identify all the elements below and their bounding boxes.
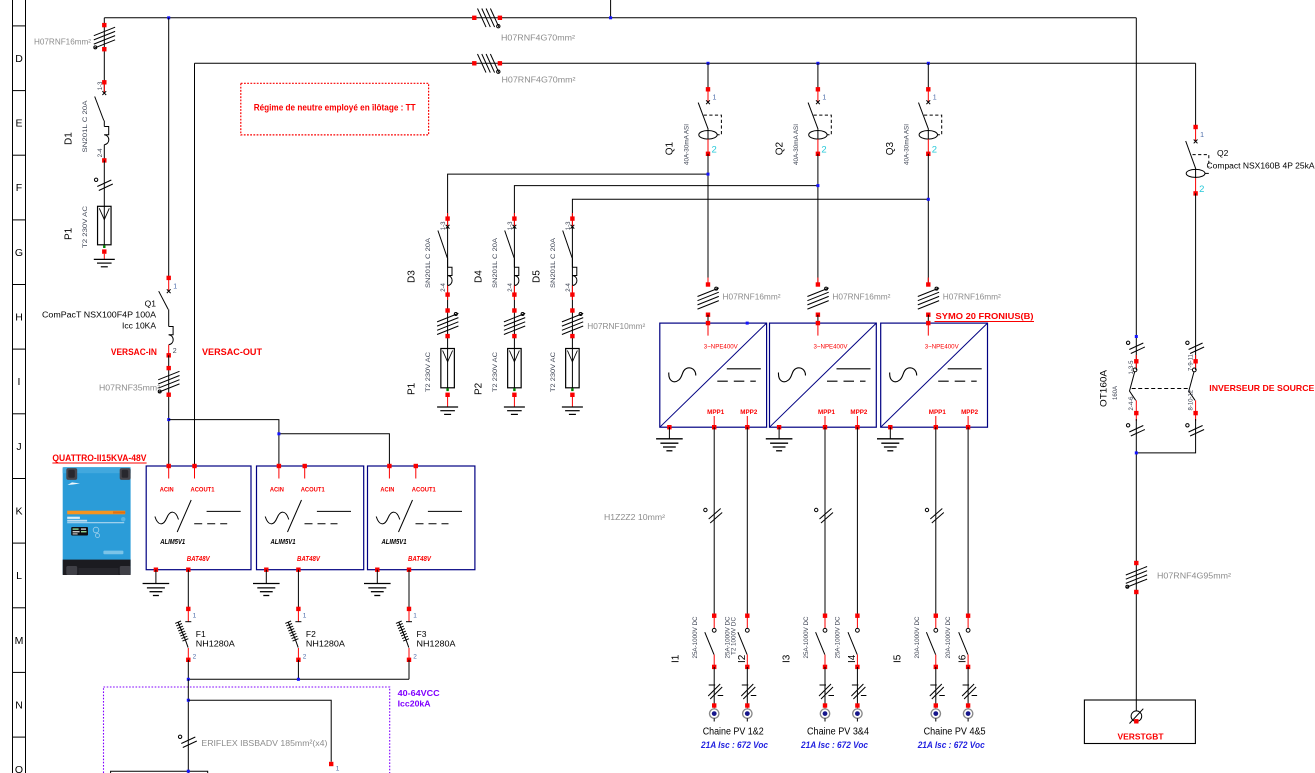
svg-text:F1: F1: [196, 629, 206, 639]
cable H07RNF16mm2: [94, 27, 115, 36]
fuse blade hatching: [288, 622, 295, 640]
cable H1Z2Z2 mark: [820, 509, 832, 520]
svg-text:SN201L C 20A: SN201L C 20A: [425, 237, 432, 288]
conductor count mark: [741, 684, 753, 696]
RCD breaker Q3 40A-30mA ASI: [885, 87, 942, 165]
DC disconnector I2: [725, 614, 749, 670]
svg-text:N: N: [15, 699, 23, 711]
svg-text:H1Z2Z2 10mm²: H1Z2Z2 10mm²: [604, 513, 665, 522]
svg-text:2-4: 2-4: [508, 282, 514, 291]
ground of W3: [889, 427, 891, 439]
terminal pin 1 of Q2: [1193, 125, 1197, 129]
wire: [824, 667, 826, 706]
terminal pin 2 of Q1: [167, 353, 171, 357]
terminal green: [103, 245, 105, 248]
node: bus1 / Q1 feeder junction: [167, 16, 170, 19]
svg-text:G: G: [15, 247, 23, 259]
terminal MPP2: [855, 425, 859, 429]
svg-text:Q2: Q2: [774, 142, 785, 156]
terminal ground of U2: [264, 568, 268, 572]
terminal green: [513, 388, 515, 391]
cable mark: [1129, 343, 1143, 350]
svg-text:ALIM5V1: ALIM5V1: [270, 539, 296, 546]
cable H07RNF4G70mm2 on bus1: [478, 9, 487, 28]
wire: PV string I2: [746, 427, 748, 616]
fuse switch F3 NH1280A: [396, 607, 456, 662]
node marker: [1135, 335, 1138, 338]
svg-text:D5: D5: [531, 270, 542, 283]
svg-text:21A Isc : 672 Voc: 21A Isc : 672 Voc: [800, 740, 868, 751]
circuit breaker Q2 Compact NSX160B: [1186, 125, 1315, 196]
surge arrester P1: [98, 206, 112, 245]
svg-text:Q1: Q1: [665, 142, 676, 156]
terminal: [706, 282, 710, 286]
svg-text:INVERSEUR DE SOURCE: INVERSEUR DE SOURCE: [1209, 383, 1314, 393]
terminal: [934, 665, 938, 669]
svg-text:40-64VCC: 40-64VCC: [398, 688, 440, 698]
terminal of I4: [855, 614, 859, 618]
wire: [707, 315, 709, 323]
terminal pin 2 of Q3: [926, 152, 930, 156]
terminal ACIN of U3: [387, 464, 391, 468]
wire: [967, 667, 969, 706]
svg-text:H07RNF4G70mm²: H07RNF4G70mm²: [501, 34, 575, 43]
blade: [959, 632, 968, 654]
terminal: [512, 334, 516, 338]
wire: [927, 315, 929, 323]
breaker D5 blade: [563, 231, 572, 258]
svg-text:MPP2: MPP2: [961, 410, 979, 416]
svg-text:K: K: [15, 506, 22, 518]
terminal MPP2: [966, 425, 970, 429]
contact circle: [1133, 368, 1137, 372]
svg-text:Régime de neutre employé en îl: Régime de neutre employé en îlôtage : TT: [254, 102, 416, 112]
RCD breaker Q2 40A-30mA ASI: [774, 87, 831, 165]
svg-text:Icc 10KA: Icc 10KA: [122, 322, 157, 331]
sheet border left column: [12, 0, 14, 773]
svg-text:2: 2: [413, 654, 417, 661]
ground of W2: [778, 427, 780, 439]
OT160A pole 7-9-11/8-10-12: [1186, 341, 1204, 436]
cable mark: [504, 313, 525, 322]
wire: [817, 315, 819, 323]
svg-text:L: L: [16, 570, 22, 582]
contact circle: [934, 628, 938, 632]
RCD blade: [698, 103, 708, 130]
ground of P1: [94, 258, 115, 260]
svg-text:T2 230V AC: T2 230V AC: [425, 352, 432, 392]
terminal MPP1: [823, 425, 827, 429]
terminal: [570, 308, 574, 312]
terminal ground of U3: [375, 568, 379, 572]
svg-text:P1: P1: [63, 227, 74, 240]
disconnect mark: [97, 180, 111, 187]
terminal pin 2 of Q1: [706, 152, 710, 156]
svg-text:BAT48V: BAT48V: [187, 556, 211, 563]
svg-text:H07RNF16mm²: H07RNF16mm²: [832, 293, 890, 302]
svg-text:2: 2: [1199, 184, 1204, 195]
svg-text:2: 2: [303, 654, 307, 661]
svg-text:Chaine PV 3&4: Chaine PV 3&4: [807, 727, 869, 738]
terminal ground: [777, 425, 781, 429]
wire: [103, 160, 105, 206]
wire: [935, 667, 937, 706]
conductor count mark: [930, 684, 942, 696]
terminal pin 2 of Q2: [1193, 191, 1197, 195]
svg-text:25A-1000V DC: 25A-1000V DC: [804, 616, 810, 659]
terminal: [745, 703, 749, 707]
node: ACIN2/ACIN3 junction: [277, 432, 280, 435]
svg-text:SN201L C 20A: SN201L C 20A: [82, 100, 89, 153]
svg-text:MPP1: MPP1: [707, 410, 725, 416]
svg-text:Q2: Q2: [1217, 148, 1229, 158]
wire BAT to fuse F2: [297, 570, 299, 609]
terminal: [712, 703, 716, 707]
DC disconnector I6: [946, 614, 970, 670]
svg-text:D4: D4: [473, 270, 484, 283]
terminal: [167, 366, 171, 370]
blade: [926, 632, 935, 654]
node: DC tap: [187, 699, 190, 702]
terminal MPP2: [745, 425, 749, 429]
wire: VERSAC-OUT AC bus: [195, 62, 1196, 64]
terminal: [512, 308, 516, 312]
terminal ACIN of U1: [167, 464, 171, 468]
svg-text:Icc20kA: Icc20kA: [398, 699, 431, 709]
terminal: [823, 665, 827, 669]
fuse blade hatching: [178, 622, 185, 640]
terminal: [966, 703, 970, 707]
svg-text:2: 2: [173, 348, 177, 355]
DC symbol: [837, 368, 871, 370]
RCD blade: [808, 103, 818, 130]
svg-text:25A-1000V DC: 25A-1000V DC: [835, 616, 841, 659]
node: F1 to DC bus: [187, 678, 190, 681]
svg-text:8-10-12: 8-10-12: [1188, 389, 1194, 410]
terminal: [472, 16, 476, 20]
DC symbol: [948, 368, 982, 370]
svg-text:F: F: [16, 182, 22, 194]
contact circle: [823, 628, 827, 632]
ground of arrester: [562, 406, 583, 408]
svg-text:H: H: [15, 312, 23, 324]
terminal pin 2-4 of D4: [512, 292, 516, 296]
svg-text:Chaine PV 4&5: Chaine PV 4&5: [924, 727, 986, 738]
wire: [713, 667, 715, 706]
wire: ACIN distribution jog: [169, 420, 390, 466]
breaker D1 blade: [95, 97, 104, 121]
cable H07RNF16mm2: [807, 288, 828, 297]
terminal: [570, 334, 574, 338]
breaker D3 SN201L C 20A: [407, 213, 453, 300]
svg-text:21A Isc : 672 Voc: 21A Isc : 672 Voc: [917, 740, 985, 751]
svg-text:25A-1000V DC: 25A-1000V DC: [693, 616, 699, 659]
terminal: [745, 665, 749, 669]
wire: D4 branch riser and link to RCD: [514, 186, 818, 349]
ground of arrester: [437, 406, 458, 408]
wire: D1/P1 branch: [103, 18, 105, 93]
AC/DC converter symbol: [155, 512, 179, 524]
svg-text:NH1280A: NH1280A: [417, 639, 456, 649]
terminal pin 1 of Q3: [926, 87, 930, 91]
breaker D4 blade: [505, 231, 514, 258]
terminal pin 1: [329, 762, 333, 766]
ground of W1: [668, 427, 670, 439]
terminal: [855, 703, 859, 707]
svg-text:1: 1: [173, 284, 177, 291]
RCD test dashed box: [814, 115, 832, 135]
svg-text:P1: P1: [407, 382, 418, 395]
terminal pin 1 of F2: [296, 607, 300, 611]
node: feeder to ACIN bus: [167, 418, 170, 421]
svg-text:2: 2: [821, 145, 826, 156]
cable H07RNF35mm2: [158, 371, 179, 380]
distribution board VERSTGBT: [1084, 700, 1195, 744]
wire: D5 branch riser and link to RCD: [572, 199, 928, 348]
terminal: [512, 393, 516, 397]
svg-text:H07RNF4G95mm²: H07RNF4G95mm²: [1157, 572, 1231, 581]
cable H1Z2Z2 mark: [930, 509, 942, 520]
terminal of I6: [966, 614, 970, 618]
inverter/charger U2 Quattro ALIM5V1: [257, 464, 364, 572]
terminal: [966, 665, 970, 669]
wire: PV string I5: [935, 427, 937, 616]
svg-text:SYMO 20 FRONIUS(B): SYMO 20 FRONIUS(B): [936, 311, 1034, 321]
node: poles join: [1135, 451, 1138, 454]
svg-text:160A: 160A: [1113, 386, 1119, 400]
svg-text:2-4: 2-4: [566, 282, 572, 291]
cable mark: [1189, 426, 1203, 433]
svg-text:SN201L C 20A: SN201L C 20A: [550, 237, 557, 288]
wire: bus2 drop to Q2: [1195, 63, 1197, 127]
svg-text:VERSAC-OUT: VERSAC-OUT: [202, 347, 262, 357]
node: bus2 tap Q3: [927, 62, 930, 65]
AC/DC converter symbol: [376, 512, 400, 524]
ground of arrester: [504, 406, 525, 408]
terminal ACOUT1 of U3: [414, 464, 418, 468]
svg-text:T2 230V AC: T2 230V AC: [82, 206, 89, 248]
terminal AC input: [816, 321, 820, 325]
svg-text:VERSTGBT: VERSTGBT: [1118, 732, 1165, 742]
terminal of I2: [745, 614, 749, 618]
RCD toroid: [809, 131, 827, 140]
svg-text:2: 2: [932, 145, 937, 156]
svg-text:1-3: 1-3: [98, 81, 104, 90]
wire: main AC bus (top): [104, 17, 1136, 19]
svg-text:H07RNF16mm²: H07RNF16mm²: [943, 293, 1001, 302]
terminal: [1134, 590, 1138, 594]
svg-text:J: J: [16, 441, 21, 453]
node marker: [746, 322, 749, 325]
cable mark: [437, 313, 458, 322]
cable H07RNF4G95mm2: [1126, 567, 1147, 576]
svg-text:I2: I2: [737, 654, 748, 663]
svg-text:H07RNF10mm²: H07RNF10mm²: [587, 322, 645, 331]
terminal of I3: [823, 614, 827, 618]
svg-text:SN201L C 20A: SN201L C 20A: [492, 237, 499, 288]
terminal pin 1 of Q2: [816, 87, 820, 91]
wire: DC feeder down: [187, 679, 189, 773]
wire: [707, 154, 709, 285]
surge arrester P1: [441, 349, 455, 408]
DC symbol: [727, 368, 761, 370]
terminal: [934, 703, 938, 707]
svg-text:QUATTRO-II15KVA-48V: QUATTRO-II15KVA-48V: [52, 453, 147, 464]
wire: DC link to battery fuse: [188, 700, 331, 762]
wire Q1 drop: [707, 63, 709, 89]
PV string connector: [853, 709, 862, 718]
svg-text:I6: I6: [958, 654, 969, 663]
PV inverter W2 Symo 3~NPE400V: [770, 321, 877, 430]
terminal BAT48V of U1: [186, 568, 190, 572]
svg-text:40A-30mA ASI: 40A-30mA ASI: [905, 124, 911, 165]
cable H07RNF4G70mm2 on bus2: [478, 54, 487, 73]
svg-text:ACIN: ACIN: [160, 488, 174, 494]
svg-text:NH1280A: NH1280A: [306, 639, 345, 649]
svg-text:T2 230V AC: T2 230V AC: [492, 352, 499, 392]
inverter diagonal: [881, 323, 988, 427]
svg-text:E: E: [15, 118, 22, 130]
svg-text:1: 1: [713, 95, 717, 102]
terminal: [855, 665, 859, 669]
node: F2 to DC bus: [297, 678, 300, 681]
wire: stub to top edge: [610, 0, 612, 18]
contact circle: [1192, 368, 1196, 372]
cable H07RNF16mm2: [918, 288, 939, 297]
terminal: [926, 282, 930, 286]
terminal green: [571, 388, 573, 391]
svg-text:MPP1: MPP1: [818, 410, 836, 416]
svg-text:2: 2: [712, 145, 717, 156]
breaker Q1 blade: [159, 291, 169, 309]
node: bus2 tap Q2: [816, 62, 819, 65]
terminal: [445, 393, 449, 397]
svg-text:1: 1: [822, 95, 826, 102]
terminal of I5: [934, 614, 938, 618]
ground of U3: [376, 570, 378, 584]
breaker D4 SN201L C 20A: [473, 213, 519, 300]
terminal 8-10-12: [1193, 411, 1197, 415]
svg-text:BAT48V: BAT48V: [408, 556, 432, 563]
wire: [187, 660, 189, 680]
terminal ground: [888, 425, 892, 429]
PV string connector: [743, 709, 752, 718]
note box: regime de neutre: [241, 83, 429, 135]
node: arrester branch junction: [927, 198, 930, 201]
battery block (clipped): [111, 771, 208, 773]
fuse switch F1 NH1280A: [175, 607, 235, 662]
terminal pin 1 of Q1: [167, 276, 171, 280]
PV string connector: [963, 709, 972, 718]
terminal pin 1-3 of D4: [512, 216, 516, 220]
svg-text:D: D: [15, 53, 23, 65]
RCD test dashed box: [704, 115, 722, 135]
coil ellipse: [1186, 169, 1205, 177]
DC disconnector I3: [782, 614, 828, 670]
terminal pin 2-4 of D1: [102, 158, 106, 162]
svg-text:ACIN: ACIN: [270, 488, 284, 494]
svg-text:I3: I3: [782, 654, 793, 663]
breaker D5 SN201L C 20A: [531, 213, 577, 300]
blade: [1186, 141, 1196, 169]
cable H1Z2Z2 mark: [709, 509, 721, 520]
trip dashed link: [1193, 155, 1209, 167]
terminal MPP1: [934, 425, 938, 429]
terminal: [926, 313, 930, 317]
DC disconnector I5: [892, 614, 938, 670]
ground of U2: [265, 570, 267, 584]
svg-text:21A Isc : 672 Voc: 21A Isc : 672 Voc: [700, 740, 768, 751]
blade: [705, 632, 714, 654]
wire BAT to fuse F1: [187, 570, 189, 609]
cable ERIFLEX IBSBADV: [181, 737, 195, 744]
svg-text:M: M: [15, 635, 24, 647]
wire: bus1 drop to OT160A: [1135, 18, 1137, 370]
terminal: [823, 703, 827, 707]
terminal 2-4-6: [1134, 411, 1138, 415]
terminal pin 2 of F3: [407, 658, 411, 662]
node: arrester branch junction: [707, 173, 710, 176]
DC disconnector I4: [835, 614, 859, 670]
svg-text:1: 1: [336, 766, 340, 773]
wire: VERSAC-IN feeder: [168, 18, 170, 278]
svg-text:F3: F3: [417, 629, 427, 639]
svg-text:MPP2: MPP2: [850, 410, 868, 416]
wire BAT to fuse F3: [408, 570, 410, 609]
svg-text:1: 1: [933, 95, 937, 102]
cable mark: [1129, 426, 1143, 433]
terminal 7-9-11: [1193, 359, 1197, 363]
conductor count mark: [708, 684, 720, 696]
svg-text:40A-30mA ASI: 40A-30mA ASI: [794, 124, 800, 165]
blade: [1189, 372, 1195, 401]
terminal: [816, 282, 820, 286]
terminal ground: [667, 425, 671, 429]
wire: PV string I6: [967, 427, 969, 616]
terminal: [498, 61, 502, 65]
terminal ACIN of U2: [277, 464, 281, 468]
fuse blade hatching: [399, 622, 406, 640]
terminal pin 1-3 of D3: [445, 216, 449, 220]
node: wire into battery block: [187, 770, 190, 773]
svg-text:2-4: 2-4: [441, 282, 447, 291]
conductor count mark: [962, 684, 974, 696]
svg-text:ACOUT1: ACOUT1: [191, 488, 216, 494]
svg-text:1: 1: [303, 613, 307, 620]
svg-text:T2 1000V DC: T2 1000V DC: [731, 616, 737, 655]
svg-text:I4: I4: [847, 654, 858, 663]
svg-text:1: 1: [413, 613, 417, 620]
terminal pin 1 of F1: [186, 607, 190, 611]
terminal: [445, 334, 449, 338]
AC sine symbol: [890, 368, 917, 382]
svg-text:MPP1: MPP1: [929, 410, 947, 416]
svg-text:20A-1000V DC: 20A-1000V DC: [946, 616, 952, 659]
RCD breaker Q1 40A-30mA ASI: [665, 87, 722, 165]
surge arrester P2: [508, 349, 522, 408]
svg-text:H07RNF35mm²: H07RNF35mm²: [99, 384, 160, 393]
terminal 1-3-5: [1134, 359, 1138, 363]
wire: PV string I4: [856, 427, 858, 616]
svg-text:20A-1000V DC: 20A-1000V DC: [915, 616, 921, 659]
terminal pin 1 of Q1: [706, 87, 710, 91]
terminal: [706, 313, 710, 317]
wire: 48V DC bus: [188, 678, 409, 680]
wire: [856, 667, 858, 706]
inverter diagonal: [660, 323, 767, 427]
terminal pin 2-4 of D5: [570, 292, 574, 296]
terminal BAT48V of U2: [296, 568, 300, 572]
